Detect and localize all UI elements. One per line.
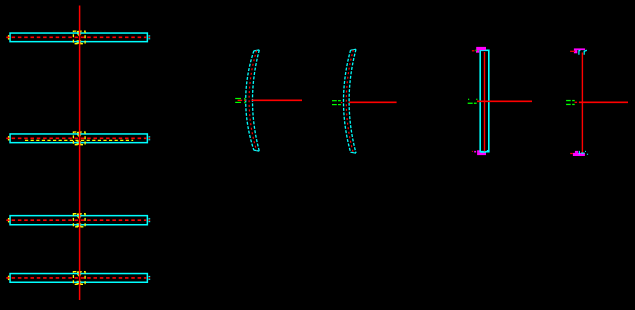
wire: red horizontal axis stub of E5	[244, 100, 302, 101]
node: green snap marker left of E8	[566, 100, 575, 105]
wire: red horizontal axis stub of E6	[349, 101, 397, 103]
node: magenta marker at bottom of E8	[570, 151, 588, 156]
node: green snap marker left of E5	[235, 98, 245, 103]
node: magenta marker at top of E8	[570, 48, 587, 54]
wire: red dashed centerline of E4	[7, 277, 147, 279]
node: yellow grip markers at axis crossing of E4	[77, 271, 82, 284]
node: left end tick of E2	[6, 136, 9, 140]
curved element E5 outline	[246, 50, 260, 151]
node: right end tick of E2	[149, 136, 151, 140]
node: left end tick of E1	[6, 35, 9, 39]
wire: red vertical centerline of E8	[581, 53, 583, 154]
wire: red vertical centerline of E7	[484, 52, 486, 151]
node: yellow selection box at axis crossing of E4	[73, 272, 85, 285]
node: left end tick of E4	[6, 276, 9, 280]
node: yellow selection box at axis crossing of E3	[73, 214, 85, 227]
node: left end tick of E3	[6, 218, 9, 222]
node: green snap marker left of E7	[468, 99, 478, 104]
flat element E4 outline	[10, 274, 147, 283]
node: yellow selection box at axis crossing of E1	[73, 31, 85, 44]
node: magenta marker at bottom of E7	[472, 150, 488, 155]
wire: red horizontal axis stub of E7	[477, 100, 532, 102]
node: right end tick of E4	[149, 276, 151, 280]
flat element E1 outline	[10, 33, 147, 42]
node: yellow selection box at axis crossing of E2	[73, 132, 85, 145]
wire: red dashed centerline of E2	[7, 137, 147, 139]
wire: red dashed centerline of E1	[7, 36, 147, 38]
wire: yellow dashed highlight line on E2	[25, 139, 133, 141]
wire: vertical red optical-axis line	[79, 6, 81, 301]
node: yellow grip markers at axis crossing of E2	[77, 132, 82, 145]
flat element E3 outline	[10, 216, 147, 225]
wire: red horizontal axis stub of E8	[575, 102, 628, 103]
wire: red dashed center arc of E6	[346, 50, 353, 153]
node: green snap marker left of E6	[332, 100, 342, 105]
flat element E2 outline	[10, 134, 147, 143]
node: right end tick of E3	[149, 218, 151, 222]
node: magenta marker at top of E7	[472, 47, 486, 53]
wire: red dashed center arc of E5	[249, 50, 257, 150]
node: right end tick of E1	[149, 35, 151, 39]
wire: red dashed centerline of E3	[7, 219, 147, 221]
curved element E6 outline	[344, 49, 357, 153]
flat element E7 outline	[480, 50, 489, 151]
node: yellow grip markers at axis crossing of E3	[77, 214, 82, 227]
node: yellow grip markers at axis crossing of E1	[77, 31, 82, 44]
